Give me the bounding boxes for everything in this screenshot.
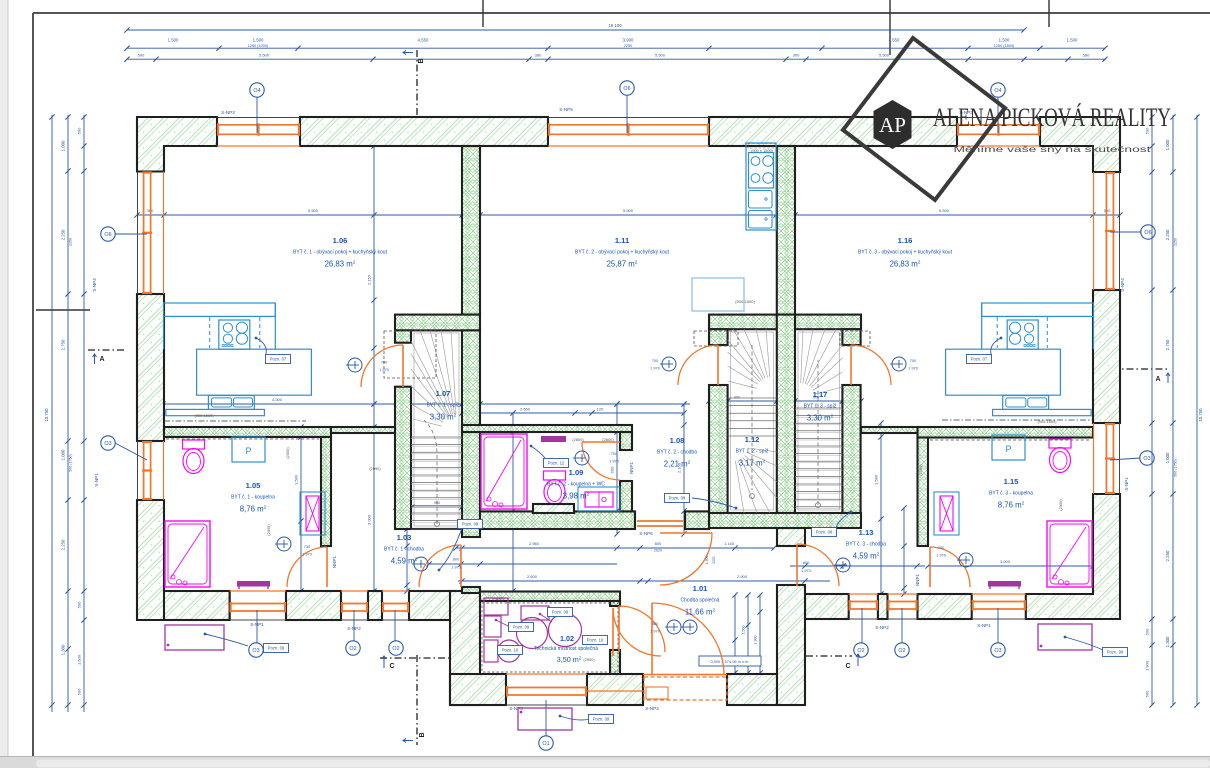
svg-text:S-NP1: S-NP1	[94, 473, 99, 487]
svg-text:2.650: 2.650	[520, 407, 531, 412]
svg-text:BYT č. 3 - koupelna: BYT č. 3 - koupelna	[989, 491, 1033, 497]
wall: left exterior lower block merging bottom wall	[137, 500, 230, 620]
svg-text:8,76 m2: 8,76 m2	[998, 501, 1025, 510]
window mark O2	[389, 641, 403, 655]
svg-text:2250: 2250	[712, 556, 716, 564]
bathroom 1.15 washing machine P	[992, 435, 1025, 460]
svg-text:3,50 m2: 3,50 m2	[557, 655, 582, 664]
svg-text:2,21 m2: 2,21 m2	[664, 460, 691, 469]
svg-text:1.15: 1.15	[1004, 477, 1020, 486]
svg-text:Pozn. 07: Pozn. 07	[971, 357, 988, 362]
kitchen BYT3 cooktop	[1007, 320, 1038, 349]
svg-text:O6: O6	[623, 86, 630, 92]
svg-text:2.150: 2.150	[367, 274, 372, 285]
svg-text:4,59 m2: 4,59 m2	[853, 552, 880, 561]
svg-text:1.000: 1.000	[1165, 452, 1170, 463]
svg-text:O3: O3	[994, 648, 1001, 654]
technical room door	[619, 606, 665, 652]
outdoor magenta unit left	[165, 625, 224, 650]
entrance area dims	[456, 547, 774, 549]
svg-text:Pozn. 09: Pozn. 09	[268, 646, 285, 651]
svg-text:1.07: 1.07	[436, 389, 451, 398]
wall: partition below stair with door opening 1.03/1.01	[462, 587, 480, 593]
left dimension column	[51, 115, 53, 712]
svg-text:2250: 2250	[1174, 238, 1178, 246]
section mark B bottom	[416, 655, 418, 745]
svg-text:(2800): (2800)	[572, 437, 584, 442]
svg-text:1.08: 1.08	[670, 436, 685, 445]
svg-text:1.580: 1.580	[874, 474, 879, 485]
svg-text:1250 (1000): 1250 (1000)	[248, 44, 269, 48]
entry door S-NP6 1.01 to 1.08	[660, 533, 712, 585]
door 1.01 to corridor 1.03	[419, 545, 461, 587]
svg-text:1 970: 1 970	[650, 366, 661, 371]
svg-text:5.500: 5.500	[939, 208, 950, 213]
svg-text:1.17: 1.17	[813, 390, 828, 399]
bathroom 1.05 dashed niche line	[166, 438, 319, 440]
wall: bathroom 1.09 block top	[462, 425, 632, 432]
door 1.16 to stair 1.17	[851, 345, 891, 385]
svg-text:3,98 m2: 3,98 m2	[563, 492, 590, 501]
outdoor magenta unit bottom centre	[518, 708, 572, 730]
wall: central stair right wall with door opening	[842, 329, 860, 345]
svg-text:S-NP1: S-NP1	[977, 623, 991, 628]
svg-text:11,66 m2: 11,66 m2	[685, 608, 716, 617]
wall: right wing bottom segments	[805, 594, 849, 619]
window mark O3	[991, 643, 1005, 657]
svg-text:2.250: 2.250	[61, 539, 66, 550]
staircase 1.07 treads	[411, 330, 462, 529]
wall: top segment between windows S-NP3 and S-NP5	[300, 117, 548, 146]
window S-NP3 central block bottom	[506, 674, 587, 705]
window S-NP1 bottom right wing	[972, 594, 1026, 619]
wall: partition 1.06/1.11	[462, 146, 480, 315]
window S-NP3 top left	[217, 118, 300, 147]
svg-text:Pozn. 10: Pozn. 10	[502, 648, 519, 653]
wall: technical room 1.02 top	[480, 592, 620, 602]
bathroom 1.05 towel radiator	[300, 492, 325, 535]
svg-text:1.140: 1.140	[724, 541, 735, 546]
svg-text:Pozn. 07: Pozn. 07	[270, 357, 287, 362]
svg-text:(900-1500): (900-1500)	[1037, 419, 1057, 424]
svg-text:S-NP3: S-NP3	[645, 706, 659, 711]
window mark O6	[1141, 225, 1155, 239]
svg-text:S-NP4: S-NP4	[92, 278, 97, 292]
svg-text:4,59 m2: 4,59 m2	[391, 557, 418, 566]
svg-text:O1: O1	[542, 741, 549, 747]
svg-text:1.300: 1.300	[61, 644, 66, 655]
top dimension chain row1 total 18 100	[127, 29, 1024, 31]
window position circles with leaders	[256, 97, 258, 133]
svg-text:900: 900	[734, 396, 740, 400]
svg-text:2620: 2620	[654, 549, 662, 553]
svg-text:1 973: 1 973	[801, 568, 811, 573]
lintel dash-dot left	[164, 420, 306, 422]
svg-text:BYT č. 2 - spíž: BYT č. 2 - spíž	[736, 449, 769, 455]
top dimension chain row2	[127, 47, 1105, 49]
svg-text:1.000: 1.000	[61, 449, 66, 460]
wall: top-right corner block	[1040, 117, 1120, 172]
window S-NP2 bottom right wing (pair)	[849, 594, 878, 619]
bathroom 1.09 shower	[481, 434, 527, 509]
svg-text:1 970: 1 970	[908, 366, 919, 371]
svg-text:800: 800	[655, 541, 662, 546]
svg-text:Technická místnost společná: Technická místnost společná	[534, 646, 598, 652]
svg-text:18 100: 18 100	[608, 23, 622, 28]
svg-text:500 (1750): 500 (1750)	[69, 454, 73, 471]
svg-text:1.500: 1.500	[253, 38, 264, 43]
svg-text:C: C	[845, 663, 850, 670]
svg-text:Pozn. 08: Pozn. 08	[816, 530, 833, 535]
wall: left wing bottom segments	[164, 591, 230, 620]
svg-text:ALENA PICKOVÁ REALITY: ALENA PICKOVÁ REALITY	[933, 103, 1171, 132]
wall: corridor 1.13 top thin	[861, 427, 918, 433]
svg-text:S-NP1: S-NP1	[1124, 477, 1129, 491]
svg-text:3,17 m2: 3,17 m2	[739, 459, 766, 468]
window mark O2	[854, 643, 868, 657]
interior vertical dims	[373, 146, 375, 591]
svg-text:3.000: 3.000	[1000, 559, 1011, 564]
svg-text:0,000 = 574,06 m n.m.: 0,000 = 574,06 m n.m.	[710, 659, 749, 664]
svg-text:(900 x 1500): (900 x 1500)	[751, 148, 774, 153]
svg-text:1 970: 1 970	[379, 367, 390, 372]
window mark O4	[991, 83, 1005, 97]
svg-text:3,30 m2: 3,30 m2	[807, 414, 834, 423]
svg-text:O4: O4	[994, 88, 1001, 94]
svg-text:3,30 m2: 3,30 m2	[430, 413, 457, 422]
wall: right exterior lower block merging bottom wall	[1026, 494, 1120, 619]
svg-text:4.550: 4.550	[418, 38, 429, 43]
door 1.03 to bathroom 1.05	[287, 547, 327, 587]
svg-text:800: 800	[803, 560, 810, 565]
svg-text:1.500: 1.500	[77, 654, 82, 665]
svg-text:O3: O3	[104, 441, 111, 447]
svg-text:S-NP2: S-NP2	[875, 625, 889, 630]
section mark C right	[806, 655, 852, 657]
svg-text:S-NP6: S-NP6	[639, 531, 653, 536]
svg-text:500: 500	[77, 127, 82, 134]
section mark B top	[416, 50, 418, 117]
window S-NP4 left wall upper	[138, 172, 164, 295]
window S-NP2 bottom left wing	[341, 591, 368, 620]
section mark A left	[88, 349, 126, 351]
left grey gutter	[0, 0, 8, 768]
svg-text:1.500: 1.500	[705, 556, 709, 565]
svg-text:P: P	[245, 446, 251, 456]
svg-text:700: 700	[611, 451, 618, 456]
wall: stair 1.07 left wall with door opening	[395, 330, 411, 342]
wall: band below bathroom 1.09 with S-NP6 opening	[480, 511, 635, 529]
bathroom 1.09 sink unit	[578, 487, 620, 511]
svg-text:1.300: 1.300	[1165, 636, 1170, 647]
svg-text:300: 300	[793, 53, 800, 58]
small vertical dims in corridor 1.01	[734, 595, 736, 673]
interior horizontal dims	[163, 403, 690, 405]
svg-text:500: 500	[1145, 690, 1150, 697]
svg-text:700: 700	[381, 360, 388, 365]
svg-text:2.900: 2.900	[737, 574, 748, 579]
svg-text:(2600): (2600)	[602, 437, 614, 442]
technical room boiler tanks	[484, 598, 508, 615]
svg-text:Pozn. 09: Pozn. 09	[593, 717, 610, 722]
wall: stair 1.07 block top	[395, 315, 480, 331]
svg-text:1.16: 1.16	[898, 236, 913, 245]
svg-text:1 970: 1 970	[609, 459, 620, 464]
bathroom 1.09 toilet	[544, 471, 566, 505]
svg-text:BYT č. 1 - obývací pokoj + kuc: BYT č. 1 - obývací pokoj + kuchyňský kou…	[293, 250, 388, 256]
svg-text:(2090): (2090)	[369, 466, 381, 471]
svg-text:2.250: 2.250	[1165, 229, 1170, 240]
svg-text:1 973: 1 973	[451, 565, 461, 570]
svg-text:O6: O6	[104, 232, 111, 238]
dashed door recess boxes at stair tops	[384, 331, 436, 378]
svg-text:1.580: 1.580	[294, 474, 299, 485]
svg-text:B: B	[419, 732, 426, 737]
door 1.13 to bathroom 1.15	[930, 547, 970, 587]
bathroom 1.09 shelf	[541, 436, 566, 442]
svg-text:2.250: 2.250	[1165, 550, 1170, 561]
svg-text:Pozn. 10: Pozn. 10	[587, 638, 604, 643]
svg-text:BYT č. 1 - chodba: BYT č. 1 - chodba	[384, 547, 424, 553]
wall: bathroom 1.15 top	[918, 427, 1094, 438]
svg-text:1 970: 1 970	[936, 553, 947, 558]
svg-text:2.250: 2.250	[61, 229, 66, 240]
fold marks	[482, 0, 484, 27]
svg-text:1.11: 1.11	[615, 236, 630, 245]
wall: top-left corner block	[137, 117, 217, 172]
svg-text:2250: 2250	[624, 44, 632, 48]
svg-text:O4: O4	[253, 88, 260, 94]
window S-NP3 top right	[957, 118, 1040, 147]
wall: corridor 1.03 top thin	[331, 427, 395, 433]
entrance door S-NP3 threshold	[644, 677, 727, 700]
svg-text:730: 730	[304, 544, 311, 549]
kitchen BYT2 double sink	[749, 191, 773, 209]
svg-text:4.550: 4.550	[889, 38, 900, 43]
svg-text:1.13: 1.13	[859, 528, 874, 537]
wall: bathroom 1.09 right wall with door opening	[620, 432, 632, 450]
svg-text:O6: O6	[1144, 230, 1151, 236]
kitchen BYT2 counter vertical	[746, 143, 776, 230]
wall: left exterior mid block	[137, 294, 164, 441]
svg-text:2250: 2250	[69, 238, 73, 246]
svg-text:26,83 m2: 26,83 m2	[890, 260, 921, 269]
svg-text:Pozn. 08: Pozn. 08	[462, 522, 479, 527]
svg-text:5.500: 5.500	[655, 53, 666, 58]
wall: bathroom 1.15 left with door opening	[918, 438, 929, 547]
svg-text:(900-1500): (900-1500)	[735, 299, 755, 304]
svg-text:(2900): (2900)	[492, 597, 504, 602]
svg-text:O2: O2	[392, 646, 399, 652]
svg-text:AP: AP	[879, 113, 906, 137]
bathroom 1.15 toilet	[1049, 439, 1071, 473]
window mark O2	[346, 641, 360, 655]
kitchen BYT1 sink	[208, 396, 254, 410]
wall: central block right wall (door to 1.13)	[777, 528, 805, 546]
drawing frame	[33, 12, 1210, 14]
door 1.08 to bathroom 1.09	[582, 442, 620, 480]
svg-text:1.900: 1.900	[754, 636, 758, 645]
svg-text:1.500: 1.500	[742, 626, 746, 635]
window mark O6	[101, 227, 115, 241]
logo hexagon AP	[874, 100, 912, 149]
svg-text:Pozn. 09: Pozn. 09	[513, 625, 530, 630]
svg-text:3.000: 3.000	[367, 514, 372, 525]
room width dim line	[137, 214, 1120, 216]
wall: central block bottom segments	[450, 674, 506, 705]
window mark O3	[1140, 451, 1154, 465]
svg-text:5.900: 5.900	[623, 208, 634, 213]
note boxes	[256, 338, 266, 354]
fridge/table outline BYT2	[692, 278, 744, 311]
svg-text:Pozn. 12: Pozn. 12	[548, 461, 565, 466]
svg-text:500: 500	[77, 688, 82, 695]
svg-text:NNP1: NNP1	[915, 573, 920, 586]
svg-text:S-NP4: S-NP4	[1120, 278, 1125, 292]
window mark O3	[101, 436, 115, 450]
kitchen BYT2 cooktop	[749, 153, 774, 188]
svg-text:5.500: 5.500	[259, 53, 270, 58]
svg-text:A: A	[1155, 376, 1160, 383]
top dimension chain row3	[127, 58, 1105, 60]
svg-text:380: 380	[535, 53, 542, 58]
wall: central stair left wall with door opening	[709, 329, 728, 345]
svg-text:300: 300	[1104, 208, 1111, 213]
wall: technical room 1.02 right with door opening	[610, 601, 620, 606]
svg-text:Pozn. 09: Pozn. 09	[552, 610, 569, 615]
svg-text:B: B	[418, 58, 425, 63]
window small bottom left wing	[382, 591, 409, 620]
lintel dash-dot right	[942, 419, 1093, 421]
staircase 1.17 treads	[795, 329, 842, 510]
bathroom 1.15 bathtub	[1047, 521, 1092, 587]
window mark O3	[249, 643, 263, 657]
kitchen BYT1 counter	[164, 303, 276, 316]
door 1.11 to stair 1.12	[678, 345, 718, 385]
svg-text:(2000): (2000)	[918, 464, 923, 476]
svg-text:(2000): (2000)	[285, 447, 290, 459]
svg-text:500: 500	[77, 601, 82, 608]
svg-text:700: 700	[938, 545, 945, 550]
window mark O4	[250, 83, 264, 97]
door 1.06 to stair 1.07	[361, 345, 403, 387]
svg-text:25,87 m2: 25,87 m2	[607, 260, 638, 269]
svg-text:S-NP5: S-NP5	[559, 107, 573, 112]
svg-text:2.600: 2.600	[527, 574, 538, 579]
svg-text:O2: O2	[857, 648, 864, 654]
svg-text:1.500: 1.500	[1067, 38, 1078, 43]
lintel dashes above kitchen BYT2	[748, 144, 776, 149]
svg-text:O3: O3	[1143, 456, 1150, 462]
svg-text:1.500: 1.500	[168, 38, 179, 43]
wall: stair 1.07 right wall	[462, 330, 480, 537]
wall: partition 1.11/1.16	[777, 146, 795, 315]
svg-text:BYT č. 3 - obývací pokoj + kuc: BYT č. 3 - obývací pokoj + kuchyňský kou…	[858, 250, 953, 256]
svg-text:880: 880	[652, 621, 659, 626]
right dimension column	[1196, 115, 1198, 705]
window mark O2	[895, 643, 909, 657]
elevation note box	[699, 656, 761, 666]
svg-text:2.960: 2.960	[529, 541, 540, 546]
svg-text:120: 120	[597, 407, 604, 412]
svg-text:1 970: 1 970	[650, 629, 661, 634]
wall: bathroom 1.05 top	[164, 427, 331, 437]
svg-text:600: 600	[610, 466, 615, 473]
svg-text:2.750: 2.750	[1165, 339, 1170, 350]
svg-text:P: P	[1005, 444, 1011, 454]
door symbol circles	[346, 358, 362, 372]
svg-text:C: C	[389, 663, 394, 670]
svg-text:10.750: 10.750	[1198, 408, 1203, 422]
svg-text:1.12: 1.12	[745, 435, 760, 444]
svg-text:BYT č. 2 - chodba: BYT č. 2 - chodba	[657, 450, 697, 456]
window S-NP4 right wall upper	[1094, 172, 1120, 290]
section mark C left	[380, 657, 455, 659]
svg-text:800: 800	[453, 557, 460, 562]
bathroom 1.05 bathtub	[165, 521, 210, 587]
window S-NP1 left wall lower	[138, 441, 164, 500]
svg-text:Pozn. 99: Pozn. 99	[1107, 650, 1124, 655]
window S-NP1 right wall lower	[1094, 423, 1120, 494]
window mark O1	[539, 736, 553, 750]
svg-text:5.500: 5.500	[308, 208, 319, 213]
svg-text:Pozn. 08: Pozn. 08	[669, 496, 686, 501]
svg-text:O2: O2	[898, 648, 905, 654]
bathroom 1.15 dashed niche line	[930, 439, 1091, 441]
svg-text:O3: O3	[252, 648, 259, 654]
svg-text:580: 580	[1083, 53, 1090, 58]
svg-text:BYT č. 3 - chodba: BYT č. 3 - chodba	[846, 542, 886, 548]
svg-text:26,83 m2: 26,83 m2	[325, 260, 356, 269]
svg-text:700: 700	[910, 358, 917, 363]
wall: right exterior mid block	[1093, 290, 1120, 423]
svg-text:10.750: 10.750	[44, 408, 49, 422]
bathroom 1.09 low stub wall	[533, 504, 574, 513]
svg-text:1.900: 1.900	[1145, 660, 1150, 671]
svg-text:700: 700	[652, 358, 659, 363]
bathroom 1.05 bench	[237, 581, 270, 587]
svg-text:1.01: 1.01	[693, 584, 709, 593]
svg-text:8,76 m2: 8,76 m2	[240, 505, 267, 514]
staircase 1.12 treads	[728, 329, 777, 513]
window S-NP5 top centre	[548, 118, 709, 147]
svg-text:1.500: 1.500	[999, 38, 1010, 43]
entrance double door leafs	[652, 603, 724, 675]
kitchen BYT3 sink	[1003, 396, 1049, 410]
svg-text:BYT č. 1 - koupelna: BYT č. 1 - koupelna	[231, 495, 275, 501]
wall: central block left wall	[450, 591, 480, 705]
svg-text:4.300: 4.300	[272, 397, 283, 402]
svg-text:500: 500	[1145, 628, 1150, 635]
svg-text:1.09: 1.09	[569, 468, 584, 477]
svg-text:3.900: 3.900	[623, 38, 634, 43]
wall: top segment between windows S-NP5 and S-NP3 right	[709, 117, 957, 146]
svg-text:BYT č. 3 - spíž: BYT č. 3 - spíž	[804, 404, 837, 410]
svg-text:NNP1: NNP1	[332, 555, 337, 568]
svg-text:(2900): (2900)	[583, 657, 595, 662]
bathroom 1.15 towel radiator	[934, 492, 959, 535]
kitchen BYT3 lower block	[946, 349, 1061, 395]
svg-text:(2000): (2000)	[266, 524, 271, 536]
svg-text:5.500: 5.500	[879, 53, 890, 58]
bottom grey band	[0, 757, 1210, 768]
kitchen BYT1 lower block	[197, 349, 312, 395]
svg-text:1.03: 1.03	[397, 533, 412, 542]
svg-text:BYT č. 2 - obývací pokoj + kuc: BYT č. 2 - obývací pokoj + kuchyňský kou…	[575, 250, 670, 256]
svg-text:Měníme vaše sny na skutečnost: Měníme vaše sny na skutečnost	[954, 144, 1152, 154]
bathroom 1.05 washing machine P	[232, 437, 265, 462]
kitchen BYT1 cooktop	[219, 320, 250, 349]
